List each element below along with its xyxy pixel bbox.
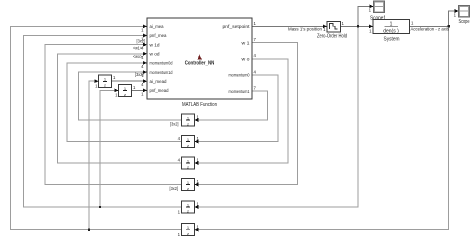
svg-text:momentum0: momentum0 — [229, 73, 251, 78]
wire junction down to Unit Delay5 input — [199, 26, 359, 207]
pin labels at Unit Delay6 — [178, 224, 200, 237]
svg-text:z: z — [187, 121, 189, 126]
wire System output to junction — [410, 25, 449, 27]
arrow into Unit Delay1 — [195, 118, 199, 122]
wire Unit Delay5 output to input2 — [23, 36, 181, 208]
svg-text:pnf_setpoint: pnf_setpoint — [223, 24, 251, 29]
pin labels around System — [369, 21, 414, 34]
svg-text:z: z — [104, 83, 106, 88]
label Scope — [459, 19, 470, 25]
wire Unit Delay A output to input7 — [112, 80, 144, 82]
wire output4 momentum0 to Unit Delay2 — [199, 75, 279, 142]
arrow into Scope — [455, 9, 459, 13]
svg-text:momentum1d: momentum1d — [150, 70, 174, 75]
arrow into Unit Delay B — [115, 89, 119, 93]
System transfer function block — [373, 20, 410, 35]
arrow into Unit Delay3 — [195, 161, 199, 165]
pin labels at Unit Delay5 — [178, 202, 200, 215]
svg-text:den(s ): den(s ) — [383, 28, 399, 34]
label MATLAB Function — [182, 102, 217, 108]
wire junction down to Unit Delay6 input — [199, 26, 449, 229]
svg-text:Scope: Scope — [459, 19, 470, 25]
wire junction on Delay5 line up to Unit Delay B — [100, 90, 116, 207]
arrow into Unit Delay A — [95, 79, 99, 83]
svg-text:w od: w od — [150, 52, 161, 57]
wire Unit Delay6 output to input1 — [11, 26, 182, 229]
pin number labels of input ports — [141, 27, 144, 96]
arrow into Unit Delay6 — [195, 228, 199, 232]
svg-text:[3x2]: [3x2] — [170, 121, 179, 126]
MATLAB Function block Controller_NN — [147, 18, 252, 99]
pin labels at Unit Delay A — [95, 75, 116, 89]
wire output3 wo to Unit Delay3 — [199, 59, 289, 163]
pin labels at Unit Delay3 — [178, 158, 200, 163]
wire Unit Delay4 output to input3 — [45, 45, 181, 185]
pin label at Scope1 input — [369, 8, 372, 13]
pin labels at Unit Delay2 — [178, 136, 200, 141]
Unit Delay1 block (flipped) — [182, 114, 195, 126]
label [3x2] at input7 — [135, 72, 144, 77]
Unit Delay4 block (flipped) — [182, 179, 195, 191]
wire output1 pnf_setpoint to Zero-Order Hold — [252, 25, 325, 27]
wire junction on Delay6 line up to Unit Delay A — [89, 81, 95, 230]
Unit Delay3 block (flipped) — [182, 157, 195, 169]
Zero-Order Hold block — [327, 22, 341, 33]
wire junction up to Scope1 — [358, 6, 371, 26]
node junction on Delay6 line — [88, 229, 90, 231]
svg-text:pnf_mead: pnf_mead — [150, 88, 170, 93]
arrow into Zero-Order Hold — [323, 25, 327, 29]
arrow into Unit Delay2 — [195, 140, 199, 144]
pin number labels of output ports — [254, 21, 257, 91]
wire output5 momentum1 to Unit Delay1 — [199, 91, 268, 120]
svg-text:Zero-Order Hold: Zero-Order Hold — [317, 33, 347, 39]
svg-text:z: z — [124, 92, 126, 97]
svg-text:Controller_NN: Controller_NN — [185, 61, 215, 67]
wire Unit Delay3 output to input4 — [58, 54, 182, 163]
svg-text:momentum1: momentum1 — [229, 89, 251, 94]
Unit Delay B block — [119, 85, 132, 97]
svg-text:pnf_mea: pnf_mea — [150, 33, 168, 38]
svg-text:z: z — [187, 231, 189, 236]
svg-text:w o: w o — [242, 57, 251, 62]
label [3x2] at input3 — [137, 38, 146, 43]
arrow into Unit Delay4 — [195, 183, 199, 187]
node junction after System — [448, 25, 450, 27]
svg-text:z: z — [187, 143, 189, 148]
label [3x2] at Unit Delay4 output — [170, 186, 179, 191]
input port arrows of Controller_NN — [143, 25, 147, 93]
svg-text:momentum0d: momentum0d — [150, 61, 174, 66]
svg-text:ai_mead: ai_mead — [150, 79, 168, 84]
label [3x2] at Unit Delay1 output — [170, 121, 179, 126]
label Mass 1's position — [288, 27, 323, 32]
Unit Delay2 block (flipped) — [182, 136, 195, 148]
Unit Delay6 block (flipped) — [182, 224, 195, 236]
svg-text:Mass 1's position: Mass 1's position — [288, 27, 323, 32]
label Scope1 — [370, 15, 386, 21]
svg-text:Acceleration - z axis: Acceleration - z axis — [411, 27, 450, 32]
node junction on Delay5 line — [99, 206, 101, 208]
label System — [384, 36, 400, 42]
Unit Delay A block — [99, 75, 112, 88]
wire junction to System input — [358, 25, 371, 27]
svg-text:[3x2]: [3x2] — [170, 186, 179, 191]
label Zero-Order Hold — [317, 33, 347, 39]
svg-text:z: z — [187, 208, 189, 213]
label wo at input5 — [133, 54, 142, 59]
arrow into Unit Delay5 — [195, 205, 199, 209]
wire junction up to Scope — [449, 11, 456, 26]
pin labels at Unit Delay4 — [197, 179, 200, 184]
svg-text:MATLAB Function: MATLAB Function — [182, 102, 217, 108]
pin labels at Unit Delay B — [115, 85, 136, 98]
Scope1 block — [374, 1, 385, 13]
Unit Delay5 block (flipped) — [182, 201, 195, 213]
label w1 at input4 — [133, 45, 142, 50]
svg-text:z: z — [187, 186, 189, 191]
arrow into Scope1 — [370, 5, 374, 9]
pin label at Scope input — [454, 13, 457, 18]
pin labels at Unit Delay1 — [197, 115, 200, 120]
wire Unit Delay1 output to input6 — [79, 72, 182, 120]
svg-text:w 1d: w 1d — [150, 42, 161, 47]
svg-text:System: System — [384, 36, 400, 42]
pin labels around Zero-Order Hold — [323, 21, 344, 32]
node junction after Zero-Order Hold — [357, 25, 359, 27]
svg-text:z: z — [187, 164, 189, 169]
wire Unit Delay2 output to input5 — [67, 63, 182, 142]
arrow into System — [369, 25, 373, 29]
wire Unit Delay B output to input8 — [132, 89, 144, 91]
Scope block — [459, 6, 470, 18]
wire Zero-Order Hold to junction — [341, 25, 359, 27]
wire output2 w1 to Unit Delay4 — [199, 43, 298, 185]
svg-text:w 1: w 1 — [242, 40, 251, 45]
svg-text:ai_mea: ai_mea — [150, 24, 165, 29]
label Acceleration - z axis — [411, 27, 450, 32]
